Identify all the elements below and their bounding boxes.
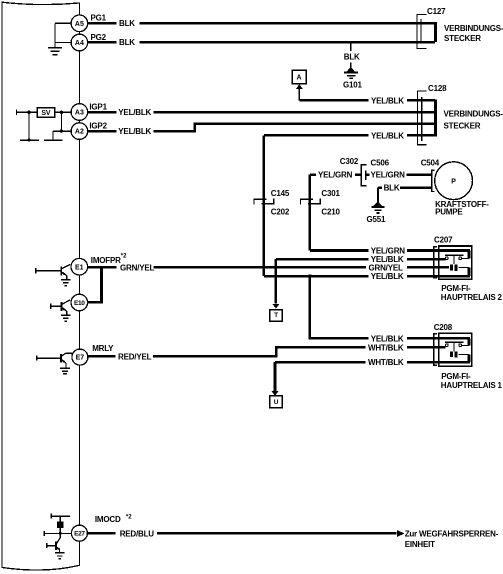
pump connector bracket C504 [432,170,435,191]
wire right branch down to A2 row [60,112,62,131]
svg-text:P: P [451,179,456,186]
C207 inner right bar bottom [468,268,471,277]
arrowhead right [397,530,405,537]
C208 contact link right [462,344,470,346]
top bar stub end [50,514,52,519]
svg-text:WHT/BLK: WHT/BLK [368,343,404,352]
C208 coil [450,351,453,357]
pump circle [435,162,473,200]
C127 bracket [417,14,427,48]
wire RED/YEL pin E7 to C208 row2 with jog [88,347,439,356]
box A [292,70,306,83]
svg-text:PGM-FI-: PGM-FI- [441,372,471,381]
wire YEL/BLK C128 wire4 horizontal [264,134,435,137]
svg-text:SV: SV [41,110,50,117]
svg-text:*2: *2 [121,254,127,260]
transistor base bar [55,541,57,550]
pin A5 [71,15,88,32]
ECU boundary top break curve [2,2,79,4]
svg-text:YEL/BLK: YEL/BLK [118,127,151,136]
thick signal wires [87,23,438,533]
stem through indicator [59,516,61,533]
C127 pin line [420,19,422,44]
svg-text:STECKER: STECKER [444,122,481,131]
svg-text:YEL/GRN: YEL/GRN [371,246,406,255]
svg-text:PGM-FI-: PGM-FI- [441,284,471,293]
stub end mark [15,110,17,115]
wire BLK pin A4 to C127 [88,41,435,44]
base stub end [43,531,45,536]
base wire [36,270,61,272]
wire WHT/BLK C208 row3 down to U arrow [274,362,277,391]
svg-text:BLK: BLK [384,183,400,192]
emitter ground [60,363,70,374]
C207 switch stem [453,255,455,264]
wire pin E10 joins E1 [88,267,102,302]
node dot [59,532,62,535]
svg-text:*2: *2 [126,514,132,520]
svg-text:BLK: BLK [119,38,135,47]
svg-text:E27: E27 [74,531,85,538]
svg-text:C127: C127 [427,7,446,16]
C127 body right bar [434,22,437,42]
C208 inner feed row1 [439,337,470,340]
G551 ground symbol [375,202,381,205]
svg-text:U: U [274,399,279,406]
svg-text:PG2: PG2 [91,33,107,42]
transistor base stub [46,543,48,548]
svg-text:IGP2: IGP2 [89,121,107,130]
wire BLK pin A5 to C127 [88,22,435,25]
svg-text:RED/YEL: RED/YEL [118,352,152,361]
svg-text:IMOFPR: IMOFPR [91,256,121,265]
svg-text:C202: C202 [271,208,290,217]
C208 row3 inner [439,361,470,364]
C207 inner right bar top [468,251,471,259]
svg-text:G551: G551 [367,215,387,224]
C208 inner right bar bottom [468,355,471,363]
wire YEL/BLK pin A3 to C128 [88,111,435,114]
C208 contact right [459,344,462,347]
wire BLK down from PG2 wire [350,43,352,68]
svg-text:C210: C210 [321,208,340,217]
indicator square [57,521,63,528]
svg-text:BLK: BLK [119,19,135,28]
stem [377,188,379,202]
pin E10 [71,294,88,311]
C207 bracket [434,247,437,278]
svg-text:YEL/GRN: YEL/GRN [318,171,353,180]
wire YEL/BLK C128 down to relay row4 [263,135,266,276]
C208 switch stem [453,342,455,351]
arrowhead into U [272,391,279,396]
svg-text:RED/BLU: RED/BLU [120,529,155,538]
wire BLK fuel pump to ground [378,186,431,189]
pin E1 [71,258,88,275]
collector [62,300,70,304]
svg-text:A: A [296,75,301,82]
wire to SV box [16,111,37,113]
svg-text:YEL/BLK: YEL/BLK [371,334,404,343]
ECU boundary bottom break curve [2,565,79,570]
svg-text:YEL/BLK: YEL/BLK [118,108,151,117]
svg-text:PUMPE: PUMPE [435,208,463,217]
svg-text:STECKER: STECKER [444,34,481,43]
base stub end [35,268,37,273]
svg-text:E10: E10 [74,300,85,307]
svg-text:E1: E1 [75,264,84,271]
svg-text:C302: C302 [340,157,359,166]
wire YEL/BLK from A box to C128 [299,99,434,102]
node dot left [27,111,30,114]
svg-text:MRLY: MRLY [92,344,114,353]
svg-text:IMOCD: IMOCD [95,515,121,524]
wire YEL/BLK C207 row2 to T [276,258,439,261]
svg-text:A4: A4 [75,40,84,47]
C128 body right bar [434,100,437,137]
svg-text:VERBINDUNGS-: VERBINDUNGS- [444,110,503,119]
pin A2 [71,123,88,140]
collector [62,264,70,268]
base bar [60,302,62,311]
base bar [60,354,62,362]
svg-text:C207: C207 [434,236,453,245]
base stub end [50,304,52,309]
arrow into box A [298,89,300,101]
base bar [60,266,62,275]
svg-text:GRN/YEL: GRN/YEL [369,263,403,272]
box T [270,310,283,322]
wire SV box to A3 [55,111,71,113]
svg-text:A3: A3 [75,110,84,117]
emitter ground [55,550,65,559]
wire RED/BLU pin E27 to immobilizer [87,532,396,535]
wire YEL/BLK C207 row2 down to T arrow [275,259,278,303]
SV box [37,108,55,118]
ground symbol (A4/A5) [48,43,62,55]
node dot A2 row [60,129,63,132]
wire YEL/GRN C207 row1 [310,249,439,252]
C208 box [439,333,472,366]
pin A3 [71,104,88,121]
wire GRN/YEL pin E1 to C207 row3 [88,266,439,269]
wire into E27 [44,532,71,534]
wire YEL/BLK pin A2 to C128 with jog [88,124,435,132]
C207 contact link right [462,257,470,259]
top bar [51,515,70,517]
svg-text:A2: A2 [75,129,84,136]
svg-text:WHT/BLK: WHT/BLK [368,358,404,367]
svg-text:A5: A5 [75,21,84,28]
svg-text:GRN/YEL: GRN/YEL [120,263,154,272]
G101 ground symbol [348,68,354,71]
wire branch down [54,23,56,42]
wire YEL/GRN fuel pump feed [310,173,431,176]
base stub end [36,356,38,361]
pin A4 [71,34,88,51]
node dot right [60,111,63,114]
transistor emitter with arrow [57,547,60,549]
svg-text:IGP1: IGP1 [89,102,107,111]
C207 row3 inner [439,266,449,269]
C208 contact left [445,344,448,347]
svg-text:C145: C145 [271,189,290,198]
pin E7 [72,349,88,365]
svg-text:YEL/BLK: YEL/BLK [371,96,404,105]
wire YEL/GRN down to C207 row1 [309,175,312,251]
svg-text:G101: G101 [343,80,363,89]
svg-text:YEL/GRN: YEL/GRN [371,171,406,180]
wire A2 row stub [53,130,71,132]
arrowhead into T [272,304,279,309]
svg-text:HAUPTRELAIS 1: HAUPTRELAIS 1 [441,381,503,390]
svg-text:HAUPTRELAIS 2: HAUPTRELAIS 2 [441,293,503,302]
wire WHT/BLK C208 row3 to U [275,361,439,364]
wire A5 to ground branch [55,22,71,24]
svg-text:C506: C506 [371,159,390,168]
node dot bar [27,138,30,141]
svg-text:C128: C128 [428,84,447,93]
wire stub down [52,131,54,140]
svg-text:BLK: BLK [344,53,360,62]
box U [270,396,283,408]
wire left branch down [28,112,30,140]
C207 inner feed row1 [439,249,470,252]
svg-text:C301: C301 [321,189,340,198]
ECU boundary left edge [1,2,3,568]
emitter with arrow [62,272,67,275]
C128 pin line [421,97,423,141]
svg-text:T: T [274,312,278,319]
junction dot row4 [308,274,312,278]
wire YEL/BLK C207 row4 [264,275,439,278]
transistor base wire [47,545,56,547]
base wire [51,305,61,307]
emitter with arrow [62,360,66,363]
collector [62,353,73,356]
svg-text:EINHEIT: EINHEIT [405,540,435,549]
C208 inner right bar top [468,338,471,345]
svg-text:VERBINDUNGS-: VERBINDUNGS- [444,24,503,33]
emitter ground [61,276,71,286]
terminator bar right [44,139,63,141]
transistor collector [57,533,61,543]
emitter ground [61,311,71,321]
pin E27 [71,525,87,541]
svg-text:C504: C504 [421,159,440,168]
C207 box [439,246,472,279]
terminator bar left [20,139,39,141]
wire labels [118,19,405,538]
ECU pin rail [78,3,80,15]
svg-text:C208: C208 [434,323,453,332]
C208 bracket [434,334,437,365]
wire YEL/BLK relay row4 down to C208 row1 [310,276,439,338]
C207 row4 inner [439,275,470,278]
C207 contact right [459,257,462,260]
C207 row2 inner [439,258,446,261]
emitter with arrow [62,308,67,311]
C207 switch bar [445,254,464,256]
C208 row2 inner [439,346,446,349]
C207 coil [450,265,453,271]
svg-text:E7: E7 [76,355,85,362]
base wire [37,357,61,359]
C128 bracket [418,91,427,145]
C207 contact left [445,257,448,260]
wire branch to A4 [55,42,71,44]
svg-text:YEL/BLK: YEL/BLK [371,272,404,281]
C208 switch bar [445,341,464,343]
svg-text:PG1: PG1 [91,14,107,23]
svg-text:YEL/BLK: YEL/BLK [371,131,404,140]
svg-text:Zur WEGFAHRSPERREN-: Zur WEGFAHRSPERREN- [405,530,499,539]
